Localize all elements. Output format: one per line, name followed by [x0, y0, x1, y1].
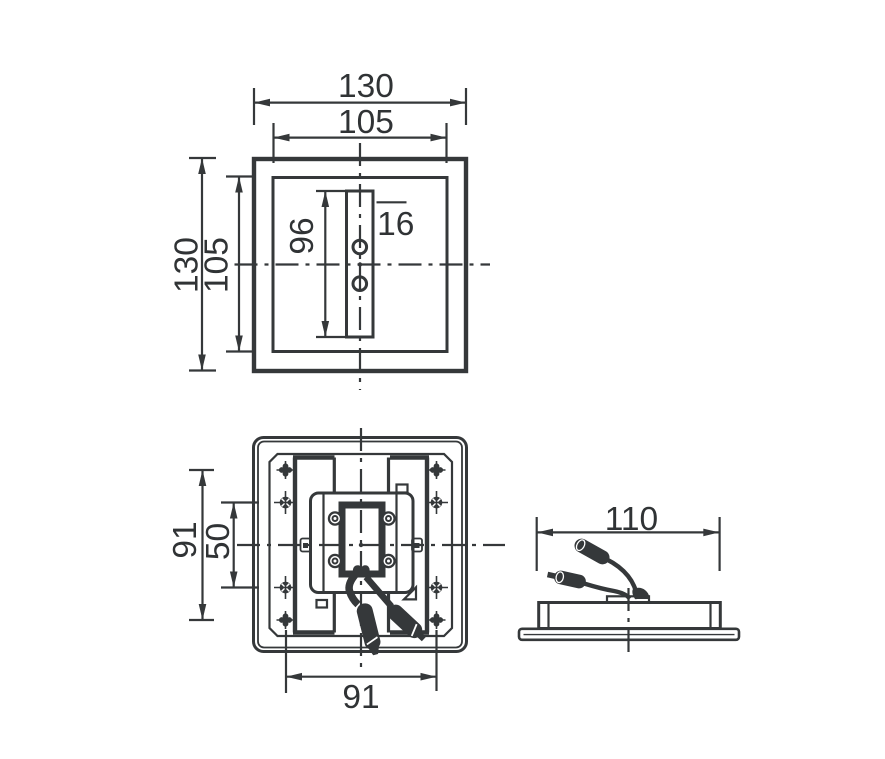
svg-text:96: 96 — [284, 217, 321, 254]
svg-text:50: 50 — [200, 523, 237, 560]
centerline vertical top view — [359, 143, 361, 390]
chamfer triangle bottom right — [404, 587, 416, 599]
dim 91 left — [167, 470, 214, 620]
svg-text:110: 110 — [605, 501, 658, 538]
wire junction blob on grommet — [632, 588, 649, 599]
center dot bottom view — [359, 543, 363, 547]
screw R4 diamond — [428, 611, 446, 629]
tab bottom left — [317, 600, 328, 608]
dim 91 bottom — [286, 630, 437, 716]
hole lower — [353, 277, 367, 291]
dim 110 — [537, 501, 720, 571]
body inner left — [547, 603, 549, 629]
centerline side view — [627, 588, 629, 655]
svg-text:105: 105 — [338, 104, 394, 141]
screw R3 round — [425, 576, 448, 599]
dim 130 top — [254, 68, 466, 125]
dim 96 — [284, 191, 346, 337]
dim 105 left — [199, 177, 253, 352]
grommet — [607, 596, 649, 602]
screw L4 diamond — [277, 611, 295, 629]
screw R2 round — [425, 491, 448, 514]
screw L2 round — [274, 491, 297, 514]
center dot top view — [358, 262, 362, 266]
dim 16 label with overline — [377, 202, 415, 243]
svg-text:130: 130 — [338, 68, 394, 105]
thick frame left — [293, 458, 297, 633]
body inner right — [709, 603, 711, 629]
slot walls top — [333, 458, 336, 494]
wire roots above socket edge — [353, 565, 370, 574]
socket screw TR — [381, 511, 395, 525]
socket screw BL — [328, 554, 342, 568]
screw R1 diamond — [428, 461, 446, 479]
dim 130 left — [169, 158, 217, 371]
base plate — [519, 629, 739, 640]
connector upper — [572, 536, 612, 567]
body — [539, 603, 721, 629]
dim 50 left — [200, 503, 259, 588]
connector B — [384, 602, 429, 645]
thick frame right — [425, 458, 429, 633]
slot walls bottom — [333, 593, 336, 633]
wing line right — [395, 494, 397, 592]
chamfered panel — [270, 454, 453, 636]
socket outer — [342, 505, 382, 574]
svg-text:16: 16 — [377, 206, 414, 243]
centerline horizontal top view — [235, 263, 491, 265]
wire upper — [606, 559, 638, 599]
svg-text:105: 105 — [199, 237, 236, 293]
svg-text:91: 91 — [167, 521, 204, 558]
hole upper — [353, 240, 367, 254]
wing line left — [322, 494, 324, 592]
dim 105 top — [274, 104, 447, 163]
ear left — [301, 539, 311, 552]
connector lower — [546, 568, 587, 590]
centerline vertical bottom view — [360, 428, 362, 668]
socket screw BR — [381, 554, 395, 568]
wire lower — [584, 584, 630, 599]
outer square 130x130 — [254, 159, 466, 371]
ear right — [412, 539, 422, 552]
tab top right — [397, 485, 408, 493]
connector A — [355, 602, 383, 657]
thick frame top segments — [293, 455, 335, 459]
outer rounded square — [254, 438, 467, 652]
bracket plate 16x96 — [347, 191, 374, 337]
inner square 105x105 — [273, 178, 447, 352]
wire B — [366, 577, 392, 607]
inner outline — [258, 442, 462, 648]
centerline horizontal bottom view — [237, 544, 505, 546]
thick frame bottom segments — [293, 630, 335, 634]
cage rounded rect — [311, 493, 414, 593]
screw L1 diamond — [277, 461, 295, 479]
wire A — [349, 575, 358, 605]
screw L3 round — [274, 576, 297, 599]
svg-text:91: 91 — [342, 679, 379, 716]
socket screw TL — [328, 511, 342, 525]
base plate inner line — [524, 634, 735, 636]
